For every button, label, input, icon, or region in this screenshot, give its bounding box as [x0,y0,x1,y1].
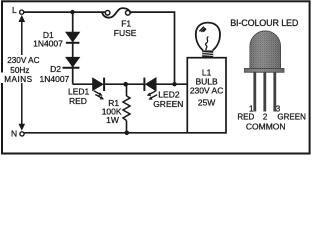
svg-text:1W: 1W [106,115,119,125]
pin number labels 1 2 3 [249,105,281,122]
terminal N [20,132,24,136]
diode D1 [66,32,80,43]
LED pin 2 leg [263,72,266,111]
wire LED1 to R1 node to LED2 [105,83,144,85]
svg-text:FUSE: FUSE [114,28,137,38]
svg-text:MAINS: MAINS [4,75,32,84]
label D1 1N4007 [33,30,63,48]
resistor R1 [123,84,130,132]
wire bottom from N to bulb box bottom [24,132,187,134]
wire top from L terminal to fuse [24,11,106,13]
label LED2 GREEN [153,89,183,109]
terminal L [20,10,24,14]
border frame [2,1,310,153]
wire diode column to LED1 [73,83,93,85]
diode column wire [72,12,74,84]
svg-text:2: 2 [263,113,268,122]
label LED1 RED [68,87,90,107]
svg-text:COMMON: COMMON [246,121,286,131]
label D2 1N4007 [40,64,70,84]
LED pin 1 leg [253,72,256,111]
LED pin 3 leg [273,72,276,111]
label F1 FUSE [114,19,137,38]
svg-text:230V AC: 230V AC [190,86,224,96]
svg-text:RED: RED [69,96,87,106]
svg-text:LED1: LED1 [68,87,90,97]
svg-text:BI-COLOUR LED: BI-COLOUR LED [230,18,299,28]
fuse F1 [102,8,132,18]
svg-text:LED2: LED2 [158,89,180,99]
label L1 BULB 230V AC 25W [190,68,224,108]
wire top from fuse to corner and down to LED row [130,12,174,84]
node junction R1 bottom [125,131,130,136]
svg-text:GREEN: GREEN [153,99,183,109]
svg-text:GREEN: GREEN [277,113,306,122]
svg-text:1N4007: 1N4007 [33,38,63,48]
diode D2 [63,57,80,67]
svg-text:50Hz: 50Hz [10,66,29,75]
svg-text:25W: 25W [198,97,215,107]
node junction top of diode column [70,10,74,14]
svg-text:D2: D2 [50,64,61,74]
mains double arrow [19,15,26,131]
svg-text:L: L [12,5,17,15]
svg-text:230V AC: 230V AC [7,56,39,65]
label 230V AC 50Hz MAINS [0,55,41,84]
label R1 100K 1W [102,98,122,125]
wire LED2 to corner node to bulb box [156,83,187,85]
svg-text:RED: RED [237,113,254,122]
bulb L1 drawing [196,23,220,57]
bulb holder box L1 [187,58,226,133]
node junction R1 top [123,82,128,87]
LED2 (green) [144,78,157,100]
node junction top-wire drop [172,82,176,86]
svg-text:N: N [11,129,17,139]
bi-colour LED package dome [245,31,284,72]
LED1 (red) [93,78,104,100]
svg-text:1N4007: 1N4007 [40,74,70,84]
